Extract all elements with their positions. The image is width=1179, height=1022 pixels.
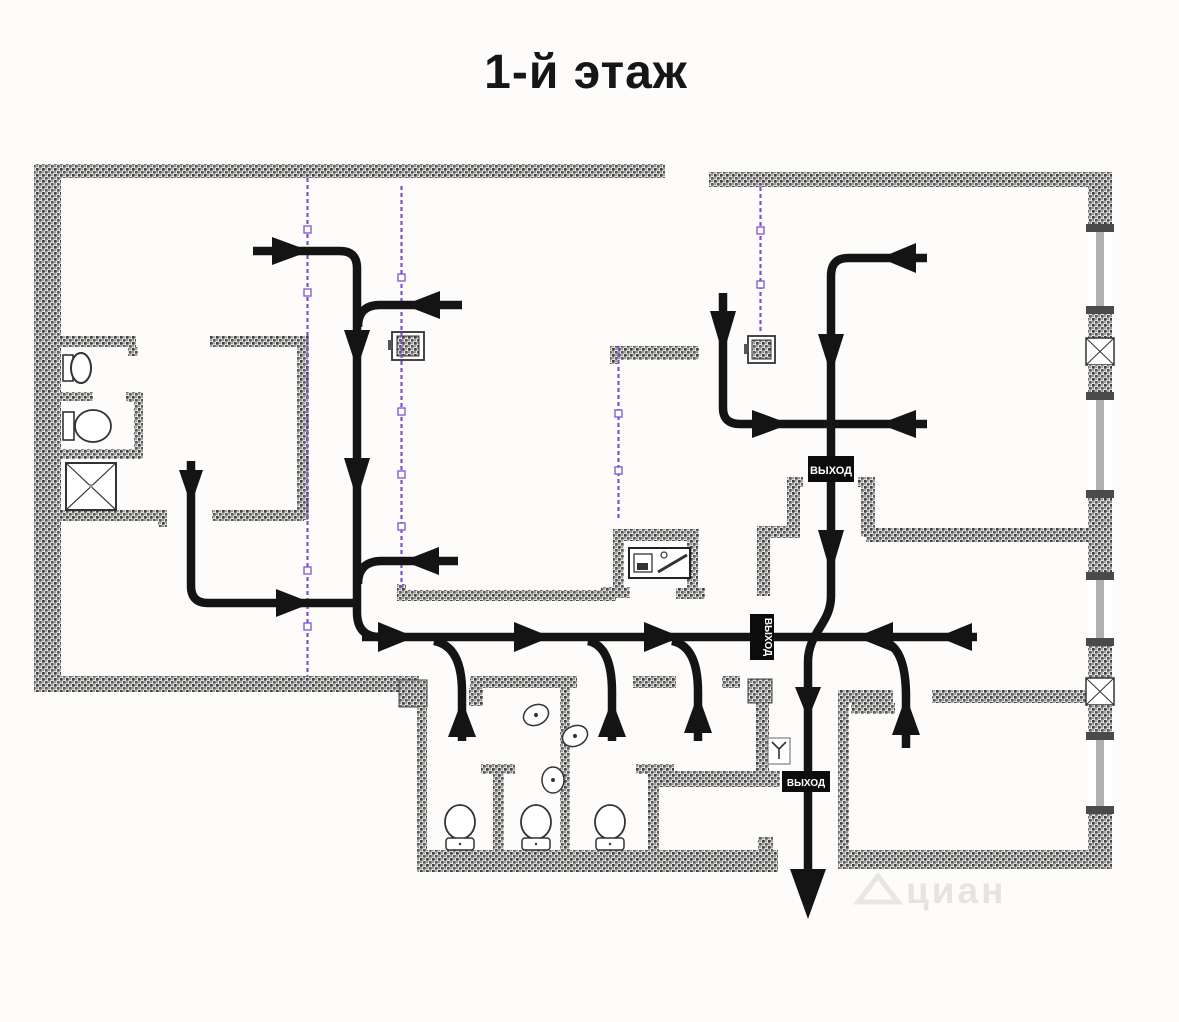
wall: right rooms north wall segment 1 bbox=[838, 690, 893, 703]
wall: top outer wall right part bbox=[709, 172, 1112, 187]
wall: desk room left wall bbox=[613, 529, 624, 595]
wall: top-middle wall tab bbox=[610, 346, 618, 364]
arrowhead east on left cluster top bbox=[272, 237, 310, 265]
window 3 in right wall bbox=[1086, 572, 1114, 646]
wall: right outer wall segment 5 bbox=[1088, 646, 1112, 678]
purple line 2 markers bbox=[398, 274, 405, 530]
arrowhead up branch 4 bbox=[892, 696, 920, 735]
arrowhead west arrow B bbox=[404, 291, 440, 319]
wall: y510 divider segment A bbox=[61, 510, 167, 521]
wall: right outer wall segment 4 bbox=[1088, 498, 1112, 572]
wall: washroom partition bbox=[560, 677, 570, 853]
arrowhead down on main vertical upper bbox=[818, 334, 844, 375]
X box 1 in right wall bbox=[1086, 338, 1114, 365]
wall: hatched box above WC block bbox=[748, 679, 772, 703]
wall: corridor south wall tab bbox=[469, 688, 483, 706]
wall: desk room top wall bbox=[613, 529, 699, 541]
window 2 in right wall bbox=[1086, 392, 1114, 498]
wall: room divider y336 segment B bbox=[210, 336, 304, 347]
route: arrow B feed bbox=[358, 305, 462, 327]
wall: right section bottom wall bbox=[838, 850, 1112, 869]
toilet B3 bbox=[595, 805, 625, 850]
route: branch x723 elbow bbox=[723, 293, 830, 424]
arrowhead west corridor 1 bbox=[856, 622, 893, 652]
svg-text:ВЫХОД: ВЫХОД bbox=[787, 778, 825, 789]
wall: WC block bottom wall end tab bbox=[758, 837, 773, 851]
wall: WC block left wall bbox=[417, 707, 427, 850]
wall: WC block inner vertical right bbox=[756, 703, 769, 771]
arrowhead up branch 1 bbox=[448, 700, 476, 737]
wall: top outer wall left part bbox=[37, 164, 665, 178]
route: arrow C feed bbox=[358, 561, 458, 584]
wall: right outer wall segment 7 bbox=[1088, 814, 1112, 869]
exit label box 1 bbox=[808, 456, 854, 482]
wall: y510 divider tab bbox=[158, 510, 167, 527]
purple line 4 markers bbox=[757, 227, 764, 288]
arrowhead down on left cluster lower bbox=[344, 458, 370, 500]
route: corridor branch 3 bbox=[672, 641, 698, 741]
arrowhead down on left cluster upper bbox=[344, 330, 370, 369]
wall: hatched corner box at bottom-left wall end bbox=[399, 680, 427, 707]
arrowhead east corridor 3 bbox=[644, 622, 681, 652]
wall: corridor north wall bbox=[397, 590, 616, 601]
route: arrow D feed bbox=[191, 461, 356, 603]
wall: right outer wall segment 1 bbox=[1088, 172, 1112, 224]
window 4 in right wall bbox=[1086, 732, 1114, 814]
toilet T2 tank bbox=[63, 412, 74, 440]
toilet B2 bbox=[521, 805, 551, 850]
arrowhead west arrow C bbox=[403, 547, 439, 575]
wall: WC bracket top bbox=[126, 392, 143, 402]
route: main corridor bbox=[362, 633, 977, 642]
purple line 1 markers bbox=[304, 226, 311, 630]
wall: right outer wall segment 6 bbox=[1088, 705, 1112, 732]
X box 2 in right wall bbox=[1086, 678, 1114, 705]
wall: right section left wall bbox=[838, 690, 849, 869]
route: corridor branch 1 bbox=[434, 641, 462, 741]
washbasin 1 bbox=[520, 700, 552, 729]
exit label box 2 bbox=[782, 771, 830, 792]
route: corridor branch 2 bbox=[588, 641, 612, 741]
purple line 3 markers bbox=[615, 410, 622, 474]
window 1 in right wall bbox=[1086, 224, 1114, 314]
purple line 1 bbox=[306, 178, 308, 677]
wall: y510 divider segment B bbox=[212, 510, 304, 521]
purple line 4 bbox=[759, 187, 761, 334]
route: top feeder into main vertical bbox=[808, 258, 927, 874]
wall: top-middle wall bbox=[610, 346, 699, 360]
toilet T2 bowl bbox=[75, 410, 111, 442]
fire cabinet box on purple line 2 bbox=[388, 332, 424, 360]
wall: bottom-left outer wall bbox=[34, 676, 419, 692]
purple line 2 bbox=[400, 186, 402, 588]
wall: corridor south wall segment 2 bbox=[633, 676, 676, 688]
wall: room divider y336 tab bbox=[128, 347, 138, 356]
wall: WC bracket vertical bbox=[134, 392, 143, 459]
wall: corridor south wall segment 1 bbox=[470, 676, 577, 688]
arrowhead up branch 3 bbox=[684, 694, 712, 733]
Y hydrant icon bbox=[768, 738, 790, 764]
arrowhead west on right feeder bbox=[879, 410, 916, 438]
toilet T1 bowl bbox=[71, 353, 91, 383]
svg-text:ВЫХОД: ВЫХОД bbox=[810, 465, 852, 477]
arrowhead west corridor 2 bbox=[938, 623, 972, 651]
arrowhead final exit down bbox=[790, 869, 826, 919]
wall: right outer wall segment 3 bbox=[1088, 365, 1112, 392]
wall: desk room left foot bbox=[601, 587, 630, 598]
wall: left outer wall bbox=[34, 164, 61, 692]
route: right side feeder into junction bbox=[834, 420, 927, 429]
shower box with X bbox=[66, 463, 116, 510]
svg-text:1-й этаж: 1-й этаж bbox=[484, 46, 688, 99]
desk with equipment icon bbox=[629, 548, 690, 578]
wall: WC block bottom wall bbox=[417, 850, 778, 872]
toilet B1 bbox=[445, 805, 475, 850]
purple line 3 bbox=[617, 346, 619, 521]
wall: WC block wall y771 bbox=[648, 771, 780, 787]
washbasin 2 bbox=[559, 721, 591, 750]
wall: exit1 left bracket bbox=[787, 477, 803, 537]
route: left cluster vertical bbox=[253, 251, 380, 637]
route: corridor branch 4 right bbox=[882, 641, 906, 748]
wall: corridor north wall tab bbox=[397, 584, 406, 592]
toilet T1 tank bbox=[63, 355, 73, 381]
wall: WC stall partition 1 bbox=[481, 764, 515, 853]
arrowhead down arrow D bbox=[179, 470, 203, 505]
arrowhead east corridor 2 bbox=[514, 622, 551, 652]
wall: desk room right wall bbox=[687, 529, 698, 588]
wall: corridor south wall segment 3 bbox=[722, 676, 740, 688]
wall: right rooms north wall inner lip bbox=[851, 703, 895, 714]
wall: room divider y336 segment A bbox=[61, 336, 136, 347]
wall: north wall of right rooms bbox=[866, 528, 1090, 542]
wall: west of exit1 horizontal bbox=[759, 526, 800, 538]
wall: WC stub under toilet 1 bbox=[59, 392, 93, 401]
arrowhead east corridor 1 bbox=[378, 622, 415, 652]
entry label box vertical bbox=[750, 614, 774, 660]
arrowhead east arrow D bbox=[276, 589, 312, 617]
fire cabinet box on purple line 4 bbox=[744, 336, 775, 363]
arrowhead down on main vertical mid bbox=[818, 530, 844, 574]
arrowhead down below corridor bbox=[795, 687, 821, 719]
wall: exit1 right bracket bbox=[858, 477, 875, 537]
arrowhead west on top feeder bbox=[880, 243, 916, 273]
wall: right outer wall segment 2 bbox=[1088, 314, 1112, 338]
svg-text:циан: циан bbox=[906, 870, 1006, 911]
wall: WC stall partition 2 bbox=[636, 764, 674, 853]
watermark house icon bbox=[858, 876, 898, 902]
arrowhead up branch 2 bbox=[598, 700, 626, 737]
urinal bbox=[542, 767, 564, 793]
arrowhead down on x723 branch bbox=[710, 311, 736, 355]
wall: west of exit1 vertical bbox=[757, 526, 770, 596]
svg-text:ВЫХОД: ВЫХОД bbox=[762, 618, 773, 656]
wall: desk room right foot bbox=[676, 588, 705, 599]
wall: WC bracket bottom bbox=[61, 449, 143, 459]
wall: right rooms north wall segment 2 bbox=[932, 690, 1088, 703]
arrowhead east on x723 elbow bbox=[752, 410, 790, 438]
wall: mid-left vertical wall bbox=[297, 336, 309, 520]
